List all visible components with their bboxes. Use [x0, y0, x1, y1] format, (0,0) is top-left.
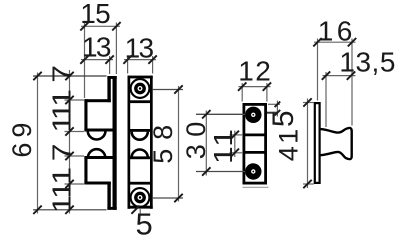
ticks dim 13 right — [123, 55, 131, 63]
dome 2 front (up bump) — [132, 150, 148, 158]
svg-text:15: 15 — [80, 0, 111, 29]
ext line riser right — [109, 56, 111, 74]
tick dim 5 strip2 — [131, 206, 139, 214]
faint stub under keeper — [243, 186, 269, 188]
bend line 2 — [129, 129, 151, 132]
ext bottom edge long — [33, 209, 107, 211]
ext stud top — [325, 72, 327, 127]
top join band — [107, 76, 116, 79]
svg-text:13,5: 13,5 — [339, 47, 395, 78]
ext tab2 top — [65, 155, 85, 157]
ticks dim 58 — [174, 85, 182, 93]
ticks dim 13 left — [80, 55, 88, 63]
dim 5 line mid — [276, 101, 278, 117]
dome 1 front (down bump) — [132, 132, 148, 140]
dim 11 line — [234, 131, 236, 158]
strip bottom band — [128, 206, 153, 209]
keeper screw top — [245, 107, 261, 123]
dim 5 tick line bottom strip2 — [139, 208, 141, 214]
dim 13 left line — [81, 59, 113, 61]
ticks dim 16 — [313, 38, 321, 46]
ext line left top — [84, 23, 86, 99]
svg-text:5: 5 — [267, 110, 300, 127]
keeper strip side — [315, 103, 320, 183]
ticks dim 11 — [231, 131, 239, 139]
tab2 top run — [84, 156, 112, 159]
keeper cross line 2 — [243, 151, 266, 154]
dim 13,5 line — [323, 75, 356, 77]
svg-text:11: 11 — [48, 181, 77, 213]
tab2 dome (bump above top run) — [88, 149, 105, 158]
svg-text:13: 13 — [125, 33, 155, 64]
screw top (front strip) — [131, 79, 150, 98]
bend line 3 — [129, 156, 151, 159]
ticks dim 69 — [33, 72, 41, 80]
ext line plate right — [115, 23, 117, 75]
ext tab1 bottom — [65, 131, 85, 133]
ext lip right — [351, 39, 353, 126]
ext 16 left — [317, 39, 319, 101]
ext keeper screw right — [267, 112, 278, 114]
ext tab1 top — [65, 99, 85, 101]
ext screw top mid — [196, 113, 245, 115]
tab2 bottom run — [84, 182, 110, 185]
ext screw bottom center — [153, 197, 183, 199]
bend line 1 — [129, 100, 151, 103]
ext keeper right — [266, 83, 268, 102]
ext top edge long — [33, 75, 107, 77]
ticks dim 15 — [80, 22, 88, 30]
ticks dim 5 mid — [275, 102, 281, 108]
plate (back plate, section filled) — [113, 76, 117, 210]
ext cross2 — [230, 152, 244, 154]
ext strip3 top — [303, 102, 314, 104]
ext screw top center — [153, 89, 183, 91]
strip left edge — [128, 76, 131, 209]
ticks dim 12 — [238, 82, 246, 90]
strip top band — [128, 76, 153, 79]
svg-text:11: 11 — [48, 103, 77, 133]
dim 15 line — [81, 25, 120, 27]
tab2 front riser — [107, 182, 110, 210]
svg-text:11: 11 — [209, 129, 238, 164]
ticks dim 41 — [303, 98, 311, 106]
keeper stud profile — [321, 128, 352, 159]
dim 13 right line — [124, 59, 156, 61]
bottom join band — [107, 207, 116, 210]
ext strip3 bottom — [303, 183, 314, 185]
svg-text:12: 12 — [238, 56, 270, 87]
ticks chain — [65, 72, 73, 80]
keeper screw bottom — [245, 163, 261, 179]
ext strip2 left — [127, 56, 129, 74]
tab1 left riser — [84, 99, 87, 131]
tab1 top run — [84, 99, 110, 102]
keeper outline — [244, 104, 266, 183]
dim 41 line — [307, 99, 309, 189]
svg-text:5: 5 — [136, 207, 153, 240]
dim 30 line — [205, 111, 207, 176]
ext screw bottom mid — [196, 171, 245, 173]
bend line 4 — [129, 182, 151, 185]
dim 69 line — [37, 73, 39, 214]
dim 12 line — [239, 86, 271, 88]
tab2 left riser — [84, 156, 87, 185]
ext cross1 — [230, 134, 244, 136]
ext keeper left — [241, 83, 243, 102]
tab1 dome (bump below bottom run) — [88, 131, 106, 140]
dim 16 line — [314, 41, 356, 43]
ext keeper top right — [268, 103, 280, 105]
ticks dim 13,5 — [322, 71, 330, 79]
svg-text:13: 13 — [82, 32, 112, 63]
ticks dim 30 — [202, 110, 210, 118]
keeper cross line 1 — [243, 133, 266, 136]
tab1 bottom run — [84, 129, 112, 132]
strip right edge — [150, 76, 153, 209]
ext strip2 right — [152, 56, 154, 74]
ext tab2 bottom — [65, 183, 85, 185]
screw bottom (front strip) — [131, 188, 150, 207]
chain dim line — [69, 70, 71, 214]
tab1 front riser — [107, 76, 110, 102]
dim 58 line — [178, 86, 180, 202]
